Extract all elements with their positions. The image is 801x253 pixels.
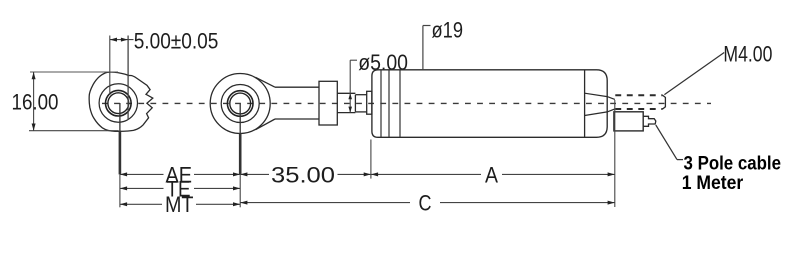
svg-text:16.00: 16.00 [12,90,59,115]
svg-text:M4.00: M4.00 [723,42,772,67]
svg-text:MT: MT [165,192,194,217]
svg-text:A: A [485,162,498,187]
svg-text:35.00: 35.00 [271,162,335,187]
svg-text:5.00±0.05: 5.00±0.05 [134,28,219,53]
svg-text:1 Meter: 1 Meter [682,172,744,194]
svg-text:C: C [419,191,432,216]
svg-text:ø19: ø19 [432,17,464,42]
